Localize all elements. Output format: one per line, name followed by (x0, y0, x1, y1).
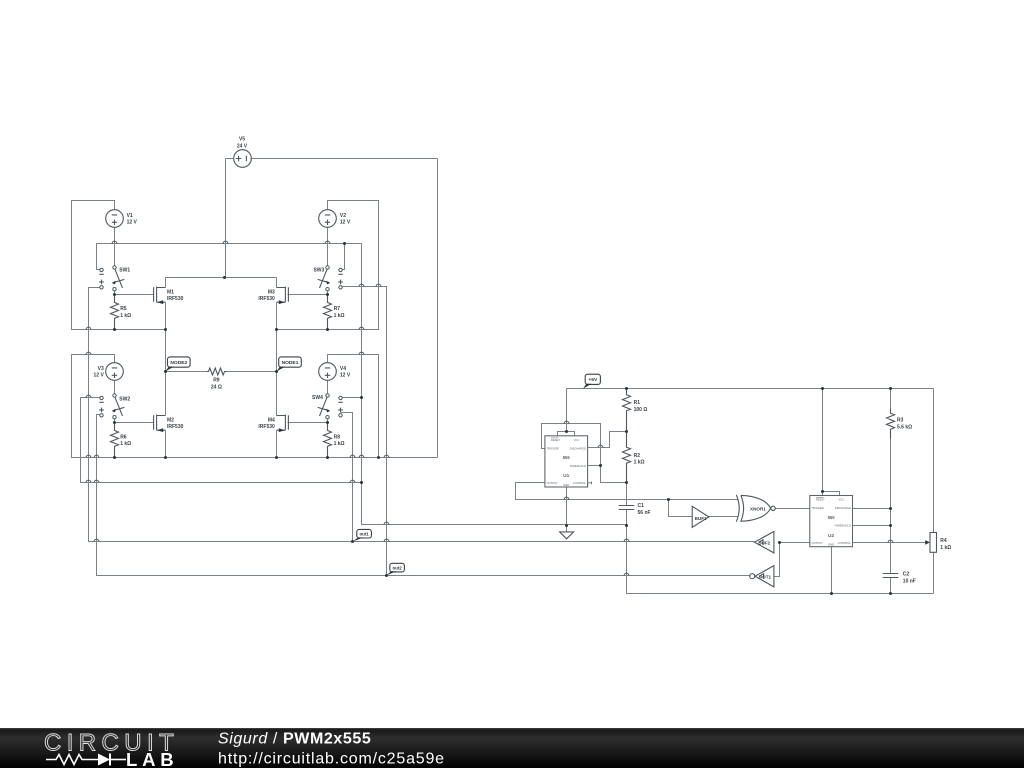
svg-text:12 V: 12 V (127, 220, 138, 226)
svg-text:RESET: RESET (551, 438, 560, 442)
svg-text:C1: C1 (638, 503, 645, 509)
svg-text:XNOR1: XNOR1 (750, 506, 766, 511)
svg-text:http://circuitlab.com/c25a59e: http://circuitlab.com/c25a59e (218, 751, 445, 768)
svg-text:IRF530: IRF530 (258, 296, 275, 302)
svg-text:OUTPUT: OUTPUT (812, 541, 823, 545)
svg-text:Sigurd / PWM2x555: Sigurd / PWM2x555 (218, 731, 371, 748)
svg-text:100 Ω: 100 Ω (634, 407, 648, 413)
svg-text:R5: R5 (120, 306, 127, 312)
svg-text:R7: R7 (334, 306, 341, 312)
svg-text:RESET: RESET (816, 498, 825, 502)
svg-text:CONTROL: CONTROL (838, 541, 852, 545)
svg-text:VCC: VCC (574, 438, 580, 442)
svg-text:CONTROL: CONTROL (573, 481, 587, 485)
svg-text:U2: U2 (828, 533, 834, 539)
svg-text:IRF530: IRF530 (167, 296, 184, 302)
svg-text:IRF530: IRF530 (167, 424, 184, 430)
svg-text:M3: M3 (268, 289, 275, 295)
svg-text:C2: C2 (903, 572, 910, 578)
svg-text:R2: R2 (634, 453, 641, 459)
svg-text:12 V: 12 V (340, 373, 351, 379)
svg-text:12 V: 12 V (94, 373, 105, 379)
svg-text:V3: V3 (98, 366, 104, 372)
svg-text:DISCHARGE: DISCHARGE (570, 446, 586, 450)
svg-text:M2: M2 (167, 417, 174, 423)
svg-text:NODE1: NODE1 (282, 360, 299, 366)
svg-text:out2: out2 (392, 565, 402, 570)
svg-text:56 nF: 56 nF (638, 510, 651, 516)
svg-text:555: 555 (828, 515, 836, 520)
svg-text:M1: M1 (167, 289, 174, 295)
svg-text:R1: R1 (634, 400, 641, 406)
svg-text:GND: GND (828, 543, 834, 547)
svg-text:12 V: 12 V (340, 220, 351, 226)
svg-text:THRESHOLD: THRESHOLD (834, 524, 851, 528)
svg-text:R9: R9 (213, 378, 220, 384)
svg-text:R8: R8 (334, 434, 341, 440)
svg-text:BUF1: BUF1 (695, 516, 707, 521)
svg-text:M4: M4 (268, 417, 275, 423)
svg-text:V5: V5 (239, 137, 245, 143)
svg-text:R3: R3 (897, 418, 904, 424)
svg-text:NOT1: NOT1 (759, 574, 772, 579)
svg-text:BUF2: BUF2 (758, 540, 770, 545)
svg-text:24 Ω: 24 Ω (211, 384, 222, 390)
svg-text:SW2: SW2 (119, 396, 130, 402)
svg-text:1 kΩ: 1 kΩ (120, 313, 131, 319)
svg-text:1 kΩ: 1 kΩ (940, 545, 951, 551)
svg-text:R6: R6 (120, 434, 127, 440)
svg-text:V4: V4 (340, 366, 346, 372)
svg-text:THRESHOLD: THRESHOLD (569, 464, 586, 468)
svg-text:1 kΩ: 1 kΩ (120, 441, 131, 447)
svg-text:OUTPUT: OUTPUT (547, 481, 558, 485)
svg-text:10 nF: 10 nF (903, 578, 916, 584)
svg-text:DISCHARGE: DISCHARGE (835, 506, 851, 510)
svg-text:1 kΩ: 1 kΩ (334, 441, 345, 447)
svg-text:24 V: 24 V (237, 143, 248, 149)
svg-text:1 kΩ: 1 kΩ (634, 460, 645, 466)
svg-text:out1: out1 (359, 532, 369, 537)
svg-text:SW4: SW4 (312, 395, 323, 401)
svg-text:VCC: VCC (839, 498, 845, 502)
svg-text:R4: R4 (940, 538, 947, 544)
svg-text:IRF530: IRF530 (258, 424, 275, 430)
svg-text:TRIGGER: TRIGGER (812, 506, 824, 510)
svg-text:SW1: SW1 (119, 268, 130, 274)
svg-text:U1: U1 (563, 473, 569, 479)
svg-text:TRIGGER: TRIGGER (547, 446, 559, 450)
svg-text:5.6 kΩ: 5.6 kΩ (897, 424, 912, 430)
svg-text:GND: GND (563, 483, 569, 487)
svg-text:LAB: LAB (126, 749, 178, 768)
svg-text:V2: V2 (340, 213, 346, 219)
svg-text:NODE2: NODE2 (170, 360, 187, 366)
svg-text:+5V: +5V (588, 377, 598, 383)
svg-text:V1: V1 (127, 213, 133, 219)
svg-text:SW3: SW3 (313, 268, 324, 274)
svg-text:555: 555 (563, 455, 571, 460)
svg-text:1 kΩ: 1 kΩ (334, 313, 345, 319)
